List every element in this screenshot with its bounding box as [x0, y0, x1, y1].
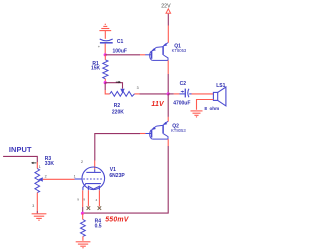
svg-text:1: 1: [74, 174, 76, 178]
wire R3 wiper to tube grid: [43, 178, 75, 180]
svg-text:LS1: LS1: [216, 83, 225, 89]
svg-text:9: 9: [77, 198, 79, 202]
wire C2 to speaker: [192, 93, 214, 95]
resistor R2 (rheostat): [110, 92, 135, 97]
svg-text:33K: 33K: [45, 161, 55, 167]
wire R2 to rail: [140, 93, 169, 95]
tube anode lead red: [94, 161, 96, 170]
wire INPUT to R3: [3, 156, 37, 162]
svg-text:15K: 15K: [91, 66, 101, 72]
junction node rail/C2: [167, 92, 170, 95]
svg-text:2: 2: [45, 174, 47, 178]
svg-text:2: 2: [81, 160, 83, 164]
C1 bottom lead: [104, 44, 106, 55]
svg-text:6N23P: 6N23P: [109, 173, 125, 179]
wire 22V arrow to Q1 emitter: [167, 14, 169, 26]
svg-text:C1: C1: [117, 39, 124, 45]
Q2 base lead red: [140, 133, 145, 135]
ground (R4): [76, 242, 91, 249]
svg-text:3: 3: [32, 204, 34, 208]
R3 wiper arrow: [38, 177, 43, 182]
svg-text:R2: R2: [114, 103, 121, 109]
R1 leads: [104, 55, 106, 60]
resistor R1: [103, 60, 108, 79]
current arrow near R2: [116, 81, 121, 83]
svg-text:1: 1: [39, 165, 41, 169]
X mark (heater pin open): [98, 206, 102, 210]
input current arrow: [31, 162, 36, 164]
svg-text:4700uF: 4700uF: [173, 100, 190, 106]
R3 top lead: [36, 162, 38, 169]
svg-text:INPUT: INPUT: [9, 145, 32, 154]
X mark (heater pin open): [87, 206, 91, 210]
junction node R1/R2: [104, 81, 107, 84]
svg-text:KT8053: KT8053: [171, 128, 186, 133]
wire junction to C2: [168, 93, 174, 95]
wire node to Q1 base: [105, 54, 140, 56]
capacitor C2: [180, 89, 192, 98]
wire node down to R2 left terminal: [104, 83, 106, 90]
22V power arrow: [166, 9, 171, 14]
ground (top, above C1, flipped): [99, 24, 111, 39]
wire speaker bottom to ground: [197, 100, 214, 110]
svg-text:22V: 22V: [161, 4, 171, 10]
transistor Q1 KT8053: [145, 43, 168, 61]
ground (R3): [32, 214, 47, 221]
svg-text:8 ohm: 8 ohm: [204, 106, 219, 111]
wire rail junction down to Q2: [167, 94, 169, 117]
tube cathode lead: [82, 190, 84, 207]
wire Q1 collector down to junction: [167, 60, 169, 74]
transistor Q2 KT8053: [145, 121, 168, 139]
tube V1 6N23P: [75, 167, 105, 190]
resistor R3 (potentiometer): [35, 169, 40, 193]
wire node to R2 wiper: [105, 83, 122, 89]
wire Q2 collector down and left to 550mV node: [167, 139, 169, 146]
junction node C1/R1/Q1-base: [104, 53, 107, 56]
svg-text:220K: 220K: [112, 110, 124, 116]
junction node cathode/R4/wire: [81, 212, 84, 215]
svg-text:C2: C2: [180, 81, 187, 87]
R2 right lead: [135, 93, 140, 95]
ground (speaker): [191, 111, 203, 118]
svg-text:KT8053: KT8053: [172, 48, 187, 53]
svg-text:0.5: 0.5: [95, 224, 102, 230]
svg-text:9: 9: [83, 198, 85, 202]
capacitor C1: [100, 39, 113, 43]
svg-text:+: +: [98, 44, 101, 49]
R2 wiper arrow: [120, 89, 124, 94]
svg-text:100uF: 100uF: [113, 48, 127, 54]
speaker LS1: [213, 87, 226, 106]
tube heater pin leads: [87, 190, 89, 206]
C2 polarity arrow: [181, 91, 185, 93]
wire tube anode to Q2 base: [95, 134, 140, 161]
svg-text:11V: 11V: [151, 101, 165, 108]
R4 leads: [82, 213, 84, 219]
resistor R4: [81, 220, 86, 237]
svg-text:550mV: 550mV: [105, 216, 130, 223]
svg-text:3: 3: [137, 86, 139, 90]
svg-text:4: 4: [96, 198, 98, 202]
R3 bottom lead to ground: [36, 193, 38, 211]
